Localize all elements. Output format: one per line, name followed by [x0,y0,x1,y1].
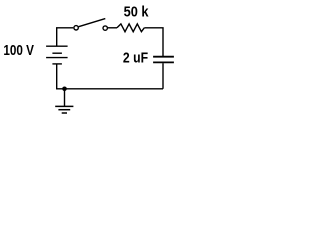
wire from resistor to top-right corner down to capacitor top [144,28,163,56]
ground symbol bar 2 [58,109,70,111]
capacitor C1 top plate [153,56,174,58]
battery B1 long plate (top, positive) [46,45,68,47]
wire from capacitor bottom down right side [162,63,164,89]
ground symbol bar 3 [62,112,67,114]
bottom wire from battery negative terminal to bottom-right corner [57,65,163,89]
switch S1 left terminal circle [74,26,78,30]
switch S1 right terminal circle [103,26,107,30]
svg-text:100 V: 100 V [3,42,34,59]
svg-text:2 uF: 2 uF [123,49,148,66]
ground symbol bar 1 [55,105,73,107]
battery B1 long plate [46,57,68,59]
node junction dot at ground connection [62,87,67,92]
battery B1 short plate [52,52,62,54]
wire from battery positive terminal up and across to switch left terminal [57,28,74,46]
ground lead wire [64,89,66,107]
wire from switch right terminal to resistor [108,27,117,29]
battery B1 short plate (bottom, negative) [52,63,62,65]
svg-text:50 k: 50 k [124,3,149,20]
capacitor C1 bottom plate [153,61,174,63]
resistor R1 zigzag 50 k [117,24,144,32]
switch S1 blade (open) [79,19,106,27]
